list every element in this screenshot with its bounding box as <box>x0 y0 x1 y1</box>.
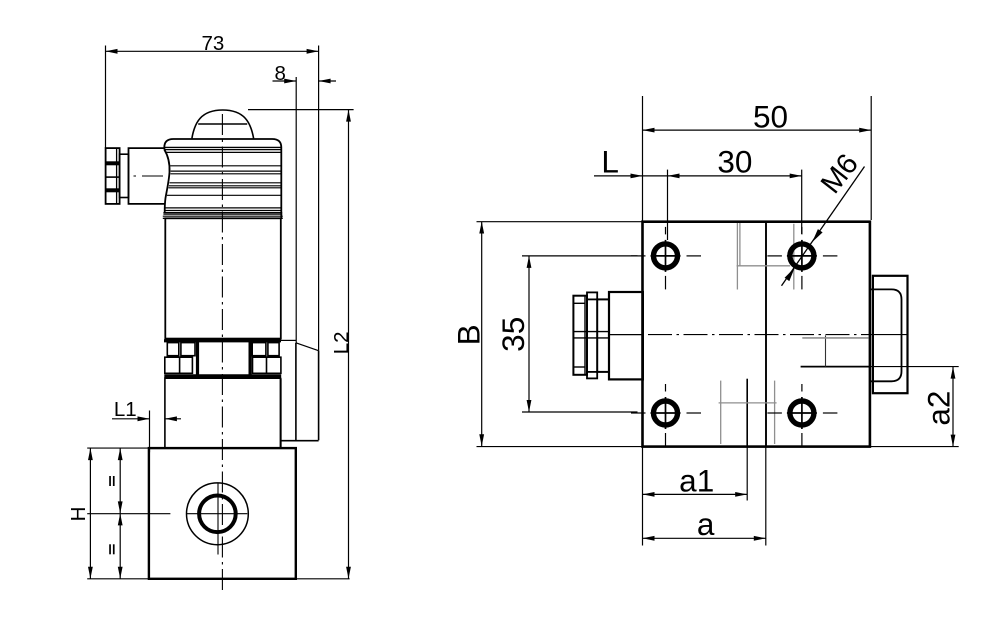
connector top tab <box>587 292 597 299</box>
svg-text:L2: L2 <box>330 331 353 354</box>
internal thin vertical right-middle <box>825 335 827 366</box>
L1 dim line left segment <box>112 418 150 420</box>
connector bottom tab <box>587 372 597 379</box>
L1 extension line <box>149 411 151 453</box>
mounting hole top-left <box>631 227 701 290</box>
protrusion outer rect <box>873 276 908 393</box>
L2 dimension line <box>348 110 350 579</box>
port crosshair horizontal <box>186 513 247 515</box>
centerline through right protrusion <box>870 334 907 336</box>
connector large block <box>609 292 643 379</box>
dome (knurled nut) outline <box>192 110 254 138</box>
nut left upper facet boxes <box>167 343 179 356</box>
hidden box bottom-center horizontal <box>719 402 777 404</box>
svg-text:73: 73 <box>201 32 224 55</box>
coil top band (rounded) <box>164 139 281 150</box>
svg-text:L1: L1 <box>114 398 137 421</box>
L2 arrow down <box>346 567 351 579</box>
nut right lower facet box <box>253 357 281 373</box>
dimension a2 <box>951 367 956 447</box>
dimension 73 line <box>106 50 319 52</box>
coil right edge <box>280 150 282 219</box>
M6 leader line <box>782 167 865 286</box>
connector (DIN plug, plan view) <box>573 292 643 379</box>
armature tube cylinder <box>165 218 280 338</box>
connector teeth inner vertical <box>116 148 118 204</box>
connector screw box inner lines <box>584 296 586 375</box>
mounting hole bottom-right <box>767 384 837 447</box>
bracket right edge of stem extended <box>280 378 282 448</box>
coil rib lines <box>165 151 281 153</box>
mounting hole top-right <box>767 227 837 290</box>
base block outline <box>149 448 296 579</box>
port crosshair vertical <box>217 484 219 555</box>
svg-text:H: H <box>67 507 90 522</box>
nut center tube right thick edge <box>249 342 252 377</box>
nut top thin continuation to bracket <box>281 339 296 341</box>
body horizontal centerline <box>648 334 870 336</box>
hidden lines (gray) <box>719 223 869 444</box>
dimension 73 arrow right <box>307 49 319 54</box>
svg-text:35: 35 <box>495 317 531 352</box>
body bottom extension to right (for a2) <box>870 446 959 448</box>
dome chord line <box>198 123 247 125</box>
svg-text:a2: a2 <box>920 391 956 426</box>
coil bottom flange lines <box>163 212 282 214</box>
30 extension line left <box>667 170 669 240</box>
35 extension lines <box>522 255 638 257</box>
coil left edge (waist curve) <box>164 150 169 213</box>
nut left lower facet box <box>165 357 193 373</box>
internal horizontal edge right-middle <box>801 366 870 368</box>
dimension 50 <box>643 96 872 222</box>
connector centerline solid <box>609 334 643 336</box>
mounting hole bottom-left <box>631 384 701 447</box>
connector middle bars <box>573 331 609 333</box>
L2 extension line top (from dome apex) <box>248 109 354 111</box>
dimension 73 extension line left <box>105 46 107 149</box>
base top extension line to left <box>87 447 149 449</box>
connector main body <box>129 148 166 204</box>
dimension 73 arrow left <box>106 49 118 54</box>
hidden box bottom-center verticals <box>720 381 722 444</box>
port inner circle (thick) <box>199 496 236 533</box>
connector teeth outer box <box>106 148 120 204</box>
dimension 8 arrow left <box>284 79 296 84</box>
L1 dim line right segment <box>165 418 181 420</box>
hidden vertical near top-right hole <box>793 224 795 290</box>
connector neck <box>120 154 129 197</box>
text = lower (rotated bars) <box>109 544 111 554</box>
base bottom extension line <box>87 578 349 580</box>
hidden vertical pair top-center <box>736 223 738 290</box>
bracket front face <box>318 351 320 441</box>
svg-text:L: L <box>601 144 619 180</box>
30 extension line right <box>801 170 803 234</box>
connector teeth band 3 <box>106 188 120 192</box>
bracket bottom edge <box>281 440 319 442</box>
body square <box>643 222 870 447</box>
a2 top extension line <box>870 366 959 368</box>
dimension 8 extension line (bracket front face) <box>295 77 297 343</box>
protrusion inner rounded rect <box>870 289 902 381</box>
L1 arrow left <box>138 416 150 421</box>
hidden gray horizontal right-middle <box>802 337 868 339</box>
bracket rear face <box>295 343 297 441</box>
svg-text:50: 50 <box>753 98 788 134</box>
svg-text:a: a <box>697 506 715 542</box>
connector left screw box <box>573 296 587 375</box>
dimension = = (equal halves) <box>118 448 123 579</box>
connector (DIN plug, side view) <box>106 148 170 204</box>
coil top band double lines <box>164 146 281 148</box>
body top extension to left (for B) <box>477 221 643 223</box>
M6 leader arrowheads <box>812 229 822 242</box>
dimension 8 line right segment <box>319 80 336 82</box>
svg-text:B: B <box>450 324 486 345</box>
dimension a1 <box>643 447 748 546</box>
nut top thick line <box>164 339 281 342</box>
hidden horizontal top-center <box>737 265 791 267</box>
bracket bend diagonal <box>296 343 319 351</box>
dimension 73 extension line right <box>318 46 320 351</box>
connector teeth band 2 (thin, center) <box>106 176 120 178</box>
nut bottom thick line <box>164 374 281 378</box>
L2 arrow up <box>346 110 351 122</box>
dimension 35 <box>522 256 638 412</box>
dimension a <box>643 447 766 546</box>
L1 arrow right <box>165 416 177 421</box>
connector centerline <box>134 175 171 177</box>
nut center tube left thick edge <box>196 342 199 377</box>
dimension 8 line left segment <box>273 80 297 82</box>
base block <box>87 448 349 579</box>
internal vertical edge (lower part) <box>746 379 748 447</box>
connector middle block <box>597 299 609 372</box>
main vertical centerline of valve <box>221 114 223 592</box>
internal vertical edge (full height) <box>765 222 767 447</box>
stem section below nut <box>165 378 281 448</box>
port outer circle <box>187 483 249 545</box>
dimension H <box>88 448 93 579</box>
port center extension line to left <box>87 513 170 515</box>
connector teeth band 1 <box>106 161 120 165</box>
dimension 8 arrow right <box>319 79 331 84</box>
svg-text:8: 8 <box>274 62 285 85</box>
body bottom extension to left (for B) <box>477 446 643 448</box>
dimension L1 <box>112 411 181 453</box>
svg-text:a1: a1 <box>679 462 714 498</box>
nut right upper facet boxes <box>252 343 266 356</box>
dimension B <box>479 222 484 447</box>
text = upper (rotated bars) <box>109 476 111 486</box>
right protrusion (manual override, plan view) <box>870 276 908 393</box>
svg-text:30: 30 <box>717 144 752 180</box>
dimension L and 30 (shared line) <box>594 170 802 240</box>
